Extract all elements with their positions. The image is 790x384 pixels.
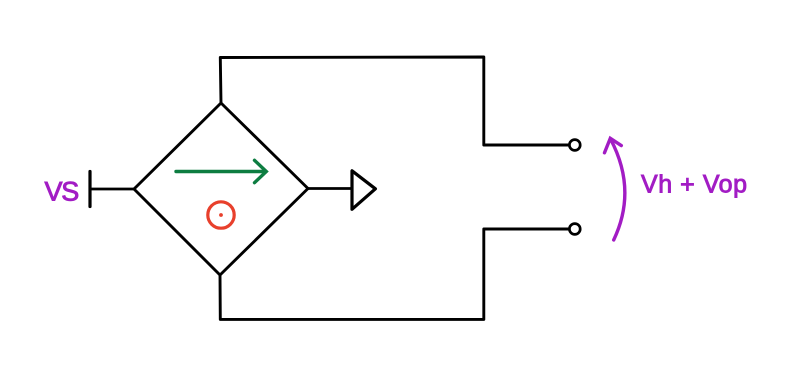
green current arrow xyxy=(176,160,266,182)
wire xyxy=(220,57,568,145)
wire xyxy=(220,229,569,319)
terminal node (top) xyxy=(569,140,580,151)
terminal tick (VS port) xyxy=(88,172,91,207)
terminal node (bottom) xyxy=(569,224,580,235)
svg-text:VS: VS xyxy=(45,177,79,207)
purple voltage arrow xyxy=(605,138,625,240)
red dot-in-circle xyxy=(208,202,234,228)
wire xyxy=(308,187,352,190)
buffer triangle xyxy=(352,171,375,210)
wire xyxy=(90,188,134,191)
svg-text:Vh + Vop: Vh + Vop xyxy=(641,171,748,199)
dependent source diamond xyxy=(134,103,308,275)
